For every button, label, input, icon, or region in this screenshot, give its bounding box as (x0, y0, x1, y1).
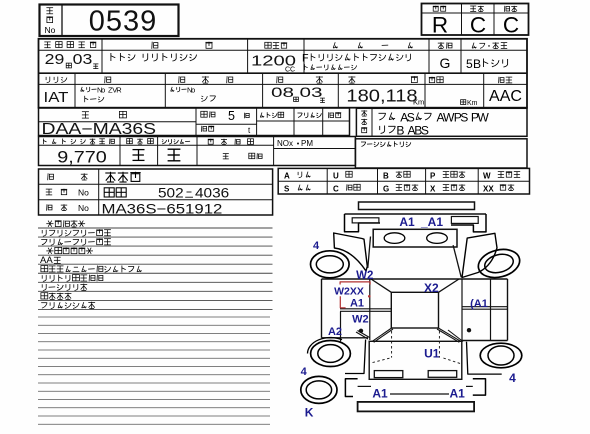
taillight right (428, 371, 457, 378)
svg-text:A1: A1 (350, 298, 364, 310)
row4 headers (43, 139, 114, 145)
hatch dashed diagonals (373, 358, 392, 363)
svg-text:5: 5 (228, 109, 235, 123)
svg-text:W2: W2 (356, 270, 373, 282)
svg-text:o: o (191, 85, 195, 94)
svg-text:S: S (460, 110, 468, 124)
body left edge (321, 279, 323, 338)
svg-text:4: 4 (313, 240, 320, 252)
info table rows 1-2 outer frame (39, 39, 528, 108)
taillight left (374, 371, 403, 378)
svg-text:XX: XX (483, 185, 494, 194)
svg-text:AAC: AAC (489, 88, 522, 105)
svg-text:W: W (483, 172, 491, 181)
svg-text:5: 5 (466, 57, 473, 71)
sales point box セールスポイント (355, 139, 527, 168)
red L mark (340, 296, 345, 308)
row1/row2 divider (39, 72, 528, 74)
rear bumper left bracket (345, 379, 357, 397)
svg-text:S: S (421, 123, 429, 137)
row4 box リサイクル預託額/保証書/ステッカー/名変期限/NOx・PM (39, 137, 356, 166)
svg-text:03: 03 (73, 51, 93, 67)
roof rect (391, 292, 438, 328)
rear hatch box (369, 341, 462, 379)
windshield slant right (439, 279, 460, 292)
svg-text:03: 03 (299, 84, 322, 100)
svg-text:(A1: (A1 (470, 298, 488, 310)
front panel right rect (451, 217, 478, 224)
equipment box 装備品 (356, 108, 527, 136)
svg-text:A2: A2 (328, 326, 342, 338)
history box 車歴/登録No/車台No (39, 169, 273, 215)
front panel left rect (352, 218, 379, 223)
left A-pillar (368, 237, 371, 269)
rear window slant left double (372, 328, 391, 341)
red bracket mark (340, 282, 370, 285)
svg-text:Km: Km (413, 98, 424, 107)
svg-text:A1: A1 (399, 215, 415, 229)
front left wheel (311, 251, 350, 278)
svg-text:No: No (78, 203, 89, 213)
front bumper bar (359, 202, 475, 210)
svg-text:G: G (383, 185, 389, 194)
left beltline double (340, 308, 391, 310)
hood with headlights (373, 229, 457, 247)
right beltline double (462, 306, 508, 308)
svg-text:C: C (503, 13, 519, 38)
left lower door line (340, 312, 342, 342)
svg-text:X2: X2 (424, 281, 439, 295)
body bottom-right edge (462, 340, 508, 342)
svg-text:180,118: 180,118 (346, 86, 417, 105)
svg-text:B: B (383, 172, 389, 181)
row2 headers シフト/色/内装色/車検/走行/推定/冷房 (46, 77, 67, 83)
svg-text:No: No (78, 188, 89, 198)
auction number box 出品No 0539 (40, 5, 179, 37)
svg-text:F: F (302, 53, 309, 65)
row1 column lines (101, 39, 103, 73)
svg-text:C: C (470, 13, 486, 38)
rear bottom bar (358, 402, 475, 412)
empty ruled lines (38, 316, 270, 318)
svg-text:NOx: NOx (277, 139, 293, 148)
left quarter panel (345, 340, 366, 374)
svg-text:29: 29 (45, 51, 65, 67)
svg-text:MA36S−651912: MA36S−651912 (102, 202, 223, 217)
svg-text:4: 4 (509, 371, 516, 385)
svg-text:R: R (116, 85, 122, 94)
svg-text:DAA−MA36S: DAA−MA36S (42, 120, 157, 138)
svg-text:PM: PM (301, 139, 313, 148)
svg-text:W2XX: W2XX (334, 286, 364, 298)
right front fender (462, 233, 497, 277)
svg-text:_A1: _A1 (420, 215, 443, 229)
rear right wheel (480, 343, 522, 368)
left c-pillar fold (356, 332, 368, 339)
windshield slant left (371, 279, 391, 292)
rear left wheel (311, 341, 351, 367)
hatch dashed verticals (391, 331, 393, 358)
right c-pillar fold (448, 330, 463, 342)
svg-text:G: G (440, 55, 451, 71)
damage legend box (278, 168, 529, 194)
row1 headers 初年度登録/車名/排気量/グレード/燃料/ドア・形状 (44, 42, 96, 48)
front panel (345, 213, 487, 215)
row3 box 型式/定員/モデル年/ハンドル/輸入 (39, 108, 350, 136)
svg-text:CC: CC (285, 67, 295, 74)
spare tire (301, 376, 337, 403)
svg-text:S: S (407, 110, 415, 124)
row2 column lines (74, 73, 76, 108)
rear bumper right bracket (473, 379, 486, 395)
right quarter panel (467, 342, 502, 374)
svg-text:C: C (333, 185, 339, 194)
svg-text:W2: W2 (352, 314, 369, 326)
rear window slant right double (438, 328, 460, 341)
svg-text:t: t (248, 126, 251, 135)
right side verticals (461, 279, 463, 341)
front right wheel (475, 245, 522, 281)
left door line (369, 279, 371, 340)
svg-text:K: K (305, 406, 314, 420)
svg-text:X: X (430, 185, 436, 194)
svg-text:0539: 0539 (89, 6, 158, 38)
right A-pillar (453, 245, 461, 277)
svg-text:Km: Km (467, 100, 478, 107)
door handle dots (359, 329, 363, 333)
row2 header line (39, 83, 528, 85)
grade box 総合/外装/内装 R C C (422, 4, 529, 36)
svg-text:08: 08 (271, 84, 294, 100)
notes lines with text 修復歴/特記事項 (38, 227, 273, 229)
svg-text:W: W (477, 110, 489, 124)
body band top edge (322, 278, 508, 280)
history values 自家用 / 山口 502ニ4036 / MA36S-651912 (105, 172, 140, 182)
red dot (368, 295, 371, 298)
svg-text:B: B (396, 123, 404, 137)
svg-text:IAT: IAT (44, 90, 69, 106)
svg-text:S: S (284, 185, 290, 194)
svg-text:4: 4 (301, 366, 308, 378)
svg-text:R: R (432, 13, 448, 38)
svg-text:AA: AA (40, 255, 53, 266)
svg-text:o: o (101, 85, 105, 94)
svg-text:9,770: 9,770 (57, 148, 107, 166)
svg-text:B: B (473, 57, 481, 71)
svg-text:A1: A1 (450, 386, 466, 400)
svg-text:A: A (284, 172, 290, 181)
left front fender (334, 233, 368, 271)
svg-text:U1: U1 (424, 347, 440, 361)
svg-text:502: 502 (158, 186, 184, 201)
svg-text:A1: A1 (372, 386, 388, 400)
svg-text:U: U (333, 172, 339, 181)
rear bumper center line (390, 393, 449, 395)
row1 header line (39, 49, 528, 51)
svg-text:4036: 4036 (195, 186, 229, 201)
svg-text:P: P (430, 172, 436, 181)
body bottom-left edge (322, 337, 369, 339)
svg-text:No: No (45, 25, 56, 35)
row3 headers (82, 112, 89, 118)
